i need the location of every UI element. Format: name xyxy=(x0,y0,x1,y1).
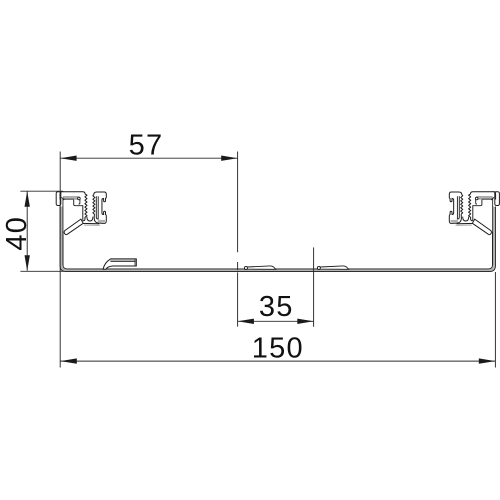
dimension line 40 (vertical) xyxy=(1,191,33,270)
svg-text:57: 57 xyxy=(129,130,164,162)
svg-text:40: 40 xyxy=(1,216,33,251)
profile sheet: walls and base (gray filled cross-section) xyxy=(60,192,496,272)
extension line right (x=495.4, below base) xyxy=(494,272,496,368)
extension line x=313.6 xyxy=(313,247,315,326)
left clamp assembly xyxy=(56,191,109,265)
extension lines for 40 dim xyxy=(20,190,63,192)
base bump left (raised tab) xyxy=(103,259,136,269)
extension line x=237.6 (segmented) xyxy=(237,152,239,327)
svg-text:35: 35 xyxy=(259,291,294,323)
base bump right (low lance tab) xyxy=(317,266,348,270)
extension line left (x=60.2) xyxy=(59,152,61,368)
dimension line 150 xyxy=(60,333,495,365)
base bump middle (low lance tab) xyxy=(244,266,275,270)
dimension line 35 xyxy=(238,291,314,324)
right clamp assembly (mirror of left) xyxy=(447,191,500,265)
svg-text:150: 150 xyxy=(252,333,304,365)
dimension line 57 xyxy=(60,130,237,162)
